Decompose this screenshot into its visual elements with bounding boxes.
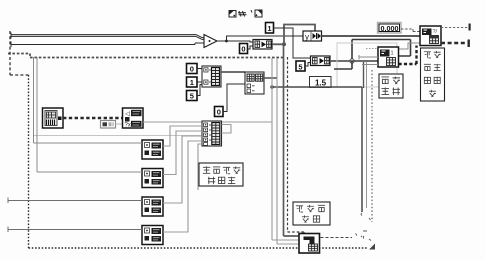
wire junction2 up over to y-block top (thick grey) [284,25,315,45]
sub VI block D [142,226,163,245]
wire compare block output long grey [143,121,272,123]
svg-text:1: 1 [190,78,194,87]
excel open block [43,108,64,128]
svg-text:?x: ?x [125,123,131,129]
wire y block output to U node (thick grey) [322,35,421,37]
sub VI block C [142,197,163,216]
node tunnel tick top right [469,24,471,31]
node junction circle [350,59,354,63]
stray scan marks right bottom [361,213,371,241]
pseudo text 式 [429,90,436,97]
constant 0 (row selector) [187,64,198,74]
wire vertical 1 [272,58,300,240]
wire constant 1 to index block 2 [274,28,312,58]
index array block 1 [253,40,272,50]
wire long horizontal 1 with tunnel tick [11,33,204,40]
svg-text:0.000: 0.000 [381,24,399,33]
wire array block 3 output thick grey to cluster block [221,71,245,73]
wire grey stub write node lower left [362,64,378,66]
loop bottom border dotted [29,247,369,249]
top icon row decoration [229,10,262,17]
pseudo text 据整理 [208,177,215,184]
svg-text:?/: ?/ [433,29,438,35]
wire block D output up to build array [163,141,202,232]
wire branch at junction down to y87 bus [272,87,362,212]
wire find cell output dash-dot [321,237,353,239]
wire junction up then right to y-block and U node [227,36,304,41]
y property block [303,31,322,42]
wire constant 0 to index block 1 [248,46,254,49]
svg-text:5: 5 [190,92,194,101]
wire stub into build array bottom [198,144,202,190]
loop left border dashed [10,31,29,75]
wire faint long horizontal to build array [34,135,202,137]
svg-text:0: 0 [190,65,194,74]
wire U node output dash-dot top to right edge tick [441,27,468,29]
wire block C output up to build array [163,136,202,203]
build array block 3 [202,66,221,87]
constant 1 [266,23,274,34]
pseudo text 改变 [424,52,431,58]
svg-text:1: 1 [267,24,271,33]
pseudo text 找寻单 [296,206,303,212]
wire vertical 3 thick grey [284,46,301,236]
U node (change cell format) [420,26,441,46]
svg-text:y: y [305,33,309,42]
wire grey stub into write node left [359,55,378,60]
wire write node to U node thin hook [399,43,419,49]
label box: data arrangement [199,163,243,186]
node junction dot on vertical 2 [270,85,274,89]
index array block 2 [311,56,331,66]
wire vertical 2 [277,58,300,244]
pseudo text 写入 [381,77,389,84]
faint frame around write-data group [337,43,397,87]
wire block B output up to build array [163,131,202,175]
wire dashed thick excel block to compare block [63,117,123,119]
node junction 2 dot [282,42,286,46]
pseudo text 格格 [424,77,430,83]
loop left border dotted vertical [28,75,30,248]
multiply node triangle [204,35,217,48]
loop right border dotted faded [371,70,373,222]
svg-text:0: 0 [217,108,221,117]
wire vertical 4 dashed [288,57,305,234]
chain dashed wire top (error cluster) [8,54,283,58]
wire tap line down to block A [34,57,143,143]
wire long horizontal 2 with tunnel tick [11,42,204,48]
wire dotted input into write node top [366,48,378,50]
pseudo text 数据 [381,87,389,95]
constant 1.5 [310,77,332,88]
svg-text:1.5: 1.5 [315,79,327,88]
loop bottom right corner mark [369,244,375,250]
node junction dot [225,40,228,43]
pseudo text 待存储数 [203,166,210,173]
wire tap line down to block B [37,57,142,172]
label box: find cell [293,202,330,225]
wire constant 1 to array block 3 [197,81,202,83]
constant UI small box [101,121,116,129]
wire constant 0 to cluster block lower input [223,84,245,112]
wire 0.000 dashed to U node [401,29,420,32]
wire block A output up to build array [163,126,202,146]
svg-text:0: 0 [241,45,245,54]
wire left tunnel to block C [8,198,142,204]
sub VI block B [142,169,163,188]
wire index block 2 output to junction circle (thick grey) [330,60,378,62]
constant 5 (row selector) [187,91,198,101]
find cell block [299,234,320,254]
wire junction circle up and right into write node right side (dark) [352,40,411,60]
constant 1 (row selector) [187,77,198,87]
constant 5 [296,61,305,72]
wire multiply output to junction [217,40,227,42]
vertical double wire right of write node [363,62,365,88]
constant 0 (column selector) [215,107,224,117]
sub VI block A [142,140,163,159]
pseudo text 元格 [302,215,309,222]
wire U node output thick dashed bottom to right edge tick [441,42,467,45]
wire cluster block output to write node [264,77,277,79]
wire constant 0 to array block 3 [197,68,202,70]
wire dark L into write node area [334,61,352,69]
wire index block 1 output to junction 2 (thick grey) [272,43,284,45]
constant 0.000 numeric indicator [378,23,402,34]
wire constant 5 hook into array block 3 [197,85,202,96]
wire left tunnel to block D [8,227,142,233]
wire junction right into index block 1 [227,41,254,42]
label box: change cell format [421,48,445,101]
stray comma marks right of find-cell output [356,234,363,238]
write node (write data) [378,47,399,67]
pseudo text 单元 [424,64,431,70]
svg-text:1: 1 [391,51,394,57]
wire build array output hook [222,125,232,134]
node tunnel tick right [468,40,470,48]
compare block [123,108,144,129]
wire UI box to compare block [116,123,123,125]
build array block (big, 5 inputs) [202,121,222,146]
wire thick dashed write node right up to U node bottom [399,46,417,65]
label box: write data [379,74,403,98]
wire constant 5 to index block 2 [305,63,311,67]
svg-text:5: 5 [298,63,302,72]
cluster double block [245,72,264,94]
constant 0 (input of index block 1) [240,44,248,54]
